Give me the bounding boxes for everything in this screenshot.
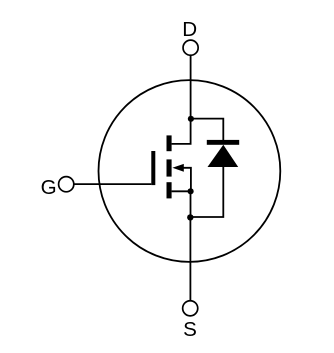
wire: G pad to gate electrode xyxy=(74,183,151,185)
body diode anode triangle xyxy=(208,145,239,167)
svg-text:D: D xyxy=(182,18,197,41)
wire: source contact to source node xyxy=(172,190,191,192)
terminal D pad xyxy=(183,40,198,55)
wire: D pad to drain node xyxy=(190,56,192,119)
MOSFET Q body contact bar xyxy=(167,159,172,176)
wire: drain node to MOSFET drain contact xyxy=(172,119,191,144)
wire: drain node to diode cathode xyxy=(191,119,223,141)
terminal G pad xyxy=(59,177,74,192)
wire: body arrow to source node xyxy=(183,168,191,192)
MOSFET Q drain contact bar xyxy=(167,135,172,151)
body diode cathode bar xyxy=(207,140,239,145)
svg-text:G: G xyxy=(41,176,57,199)
wire: diode anode to anode node xyxy=(190,166,223,217)
terminal S pad xyxy=(183,301,198,316)
package outline circle xyxy=(98,80,280,262)
MOSFET Q gate electrode bar xyxy=(151,151,155,185)
svg-text:S: S xyxy=(183,318,197,341)
MOSFET Q source contact bar xyxy=(167,182,172,198)
wire: anode node to S pad xyxy=(189,217,191,300)
wire: source node to anode node xyxy=(190,191,192,217)
node: source junction xyxy=(188,188,194,194)
node: diode anode junction xyxy=(187,214,193,220)
MOSFET Q body arrow (points to channel) xyxy=(172,164,183,172)
node: drain junction xyxy=(188,116,194,122)
